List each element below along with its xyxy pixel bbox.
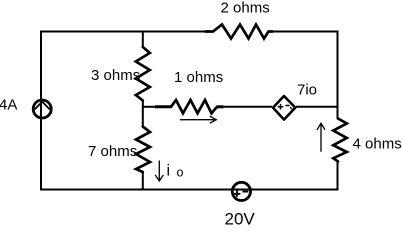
resistor 1 ohms (middle branch) bbox=[171, 100, 217, 113]
resistor 7 ohms (middle vertical lower) bbox=[136, 127, 150, 173]
resistor 4 ohms (right) bbox=[333, 119, 347, 162]
svg-text:1 ohms: 1 ohms bbox=[174, 69, 223, 86]
branch current arrow (under 1 ohms) bbox=[180, 116, 216, 123]
current io arrow (down) bbox=[155, 161, 163, 182]
dependent source minus sign bbox=[285, 105, 289, 107]
svg-text:20V: 20V bbox=[225, 210, 256, 226]
dependent source plus sign bbox=[278, 104, 284, 110]
svg-text:4A: 4A bbox=[0, 96, 17, 113]
wire left (node A to node D) bbox=[40, 32, 42, 190]
voltage source 20V plus sign bbox=[234, 190, 241, 197]
wire right upper segment bbox=[337, 31, 339, 119]
wire R1 to dependent source bbox=[217, 106, 272, 108]
svg-text:3 ohms: 3 ohms bbox=[91, 67, 140, 84]
wire bottom bbox=[40, 189, 339, 191]
current source 4A circle bbox=[33, 100, 51, 118]
svg-text:4 ohms: 4 ohms bbox=[353, 136, 402, 153]
wire top-right segment bbox=[273, 31, 339, 33]
svg-text:2 ohms: 2 ohms bbox=[221, 0, 270, 17]
svg-text:7io: 7io bbox=[297, 81, 317, 98]
lead out of resistor 1 ohms bbox=[217, 105, 224, 108]
wire middle-vertical top segment bbox=[142, 32, 144, 48]
wire right lower segment bbox=[337, 162, 339, 191]
current source 4A arrow head bbox=[35, 102, 49, 109]
svg-text:i: i bbox=[167, 163, 171, 180]
wire dependent source to right wire (node C) bbox=[296, 106, 338, 108]
resistor 3 ohms (middle vertical upper) bbox=[136, 47, 150, 101]
dependent source tick mark bbox=[290, 107, 292, 109]
wire middle-vertical bottom segment bbox=[142, 172, 144, 190]
svg-text:7 ohms: 7 ohms bbox=[88, 143, 137, 160]
resistor 2 ohms (top) bbox=[206, 25, 273, 39]
wire top-left segment bbox=[40, 31, 206, 33]
voltage source 20V circle bbox=[232, 182, 250, 200]
dependent source 7io diamond bbox=[273, 96, 295, 120]
svg-text:o: o bbox=[177, 166, 184, 180]
current arrow up (right branch) bbox=[317, 123, 325, 151]
lead into resistor 1 ohms bbox=[155, 105, 172, 108]
voltage source 20V minus sign bbox=[242, 191, 248, 193]
wire middle branch left of R1 bbox=[143, 106, 156, 108]
wire middle-vertical mid segment (node B) bbox=[142, 101, 144, 127]
